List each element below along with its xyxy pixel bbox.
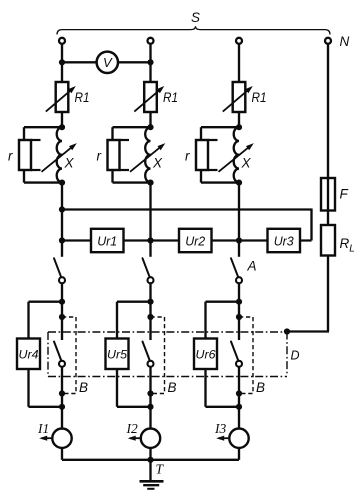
ground T [140,480,164,483]
wire into B switch (phase 1) [61,302,63,340]
wire coil to buses (phase 1) [61,183,63,242]
box Ur2 [179,229,212,252]
svg-text:N: N [340,34,350,49]
node Ur bus phase 2 [147,237,153,243]
switch S1 (A row, phase 1) [61,241,63,257]
wire source I3 to bottom bus [238,448,240,460]
svg-text:X: X [64,156,75,171]
wire Ur6 loop bottom (phase 3) [204,369,206,407]
svg-text:r: r [185,149,190,164]
chain line corridor left end [47,332,49,377]
wire into B switch (phase 3) [238,302,240,340]
chain line link D [286,332,288,375]
chain line corridor bottom [48,376,287,378]
resistor RL [321,225,335,256]
wire R1 to coil node (phase 2) [149,112,151,128]
switch B (phase 3) [231,342,238,361]
current source I1 [52,429,71,448]
dashed box B (phase 1) [62,317,76,394]
svg-text:Ur5: Ur5 [107,348,127,362]
current source I3 [229,429,248,448]
svg-text:Ur4: Ur4 [19,348,39,362]
svg-text:L: L [349,244,355,255]
svg-text:B: B [168,380,177,395]
wire r-branch loop (phase 1) [24,126,62,128]
node Ur6 loop bottom (phase 3) [236,404,242,410]
voltmeter V [97,52,118,73]
svg-text:R1: R1 [163,90,178,105]
svg-text:D: D [291,349,300,363]
box Ur1 [91,229,124,252]
wire bottom bus [62,459,239,461]
box Ur6 [194,339,217,370]
node Ur6 loop top (phase 3) [236,299,242,305]
chain line corridor top [48,331,287,333]
svg-text:Ur1: Ur1 [97,234,117,249]
node B box top (phase 1) [59,314,65,320]
svg-text:F: F [340,187,349,202]
node Ur4 loop top (phase 1) [59,299,65,305]
resistor R1 (phase 1) [56,82,69,112]
wire phase 2 drop from terminal [149,45,151,84]
wire coil to buses (phase 3) [238,183,240,242]
wire upper return bus [62,208,312,210]
current source I2 [141,429,160,448]
switch B (phase 2) [143,342,150,361]
svg-text:S: S [191,10,200,25]
node B box bottom (phase 1) [59,390,65,396]
wire ground stub [149,460,151,481]
svg-text:I1: I1 [37,421,49,436]
node coil bottom (phase 2) [147,180,153,186]
terminal N [325,38,331,44]
svg-text:R1: R1 [252,90,267,105]
wire source I1 to bottom bus [61,448,63,460]
resistor r (phase 3) [196,140,208,170]
wire r-branch loop (phase 2) [113,126,151,128]
node coil top (phase 2) [147,124,153,130]
wire into B switch (phase 2) [149,302,151,340]
wire Ur5 loop bottom (phase 2) [116,369,118,407]
wire coil to buses (phase 2) [149,183,151,242]
node Ur4 loop bottom (phase 1) [59,404,65,410]
svg-text:R: R [340,236,350,251]
wire Ur4 loop left (phase 1) [29,301,63,303]
svg-text:A: A [247,259,257,274]
dashed box B (phase 2) [151,317,165,394]
node Ur5 loop bottom (phase 2) [147,404,153,410]
svg-text:B: B [79,380,88,395]
node coil top (phase 3) [236,124,242,130]
wire r-branch loop (phase 3) [201,126,239,128]
resistor R1 (phase 3) [233,82,246,112]
node phase2-voltmeter [147,59,153,65]
inductor X (phase 2) [145,127,150,182]
node Ur bus phase 1 [59,237,65,243]
node coil top (phase 1) [59,124,65,130]
node B box top (phase 2) [147,314,153,320]
wire RL to node D [287,330,329,332]
wire bus jog [310,209,312,241]
node upper bus phase1 [59,206,65,212]
svg-text:B: B [256,380,265,395]
inductor X (phase 1) [57,127,62,182]
node B box top (phase 3) [236,314,242,320]
node coil bottom (phase 3) [236,180,242,186]
svg-text:I2: I2 [126,421,138,436]
svg-text:r: r [97,149,102,164]
wire R1 to coil node (phase 3) [238,112,240,128]
inductor X (phase 3) [234,127,239,182]
svg-text:Ur6: Ur6 [196,348,216,362]
wire to source I1 [61,407,63,428]
svg-text:X: X [241,156,252,171]
phase 2 terminal [148,38,154,44]
switch S3 (A row, phase 3) [238,241,240,257]
fuse F [321,178,335,211]
box Ur3 [268,229,301,252]
node coil bottom (phase 1) [59,180,65,186]
wire R1 to coil node (phase 1) [61,112,63,128]
wire voltmeter [62,61,151,63]
wire source I2 to bottom bus [149,448,151,460]
wire Ur5 loop left (phase 2) [117,301,151,303]
switch B (phase 1) [54,342,61,361]
resistor R1 (phase 2) [144,82,157,112]
wire to source I2 [149,407,151,428]
wire Ur4 loop bottom (phase 1) [27,369,29,407]
node B box bottom (phase 3) [236,390,242,396]
node D [284,328,290,334]
node phase1-voltmeter [59,59,65,65]
node Ur5 loop top (phase 2) [147,299,153,305]
resistor r (phase 1) [19,140,31,170]
resistor r (phase 2) [108,140,120,170]
svg-text:r: r [8,149,13,164]
wire N branch [327,45,329,332]
node T [147,457,153,463]
box Ur5 [106,339,129,370]
svg-text:I3: I3 [214,421,226,436]
switch S2 (A row, phase 2) [149,241,151,257]
node Ur bus phase 3 [236,237,242,243]
wire: supply brace S [57,26,330,34]
phase 3 terminal [236,38,242,44]
wire to source I3 [238,407,240,428]
svg-text:Ur3: Ur3 [274,234,295,249]
wire phase 3 drop from terminal [238,45,240,84]
dashed box B (phase 3) [239,317,253,394]
wire Ur6 loop left (phase 3) [206,301,240,303]
svg-text:R1: R1 [75,90,90,105]
svg-text:Ur2: Ur2 [185,234,206,249]
svg-text:X: X [152,156,163,171]
svg-text:V: V [103,55,113,70]
phase 1 terminal [59,38,65,44]
box Ur4 [17,339,40,370]
wire Ur control bus [62,239,312,241]
node B box bottom (phase 2) [147,390,153,396]
wire phase 1 drop from terminal [61,45,63,84]
